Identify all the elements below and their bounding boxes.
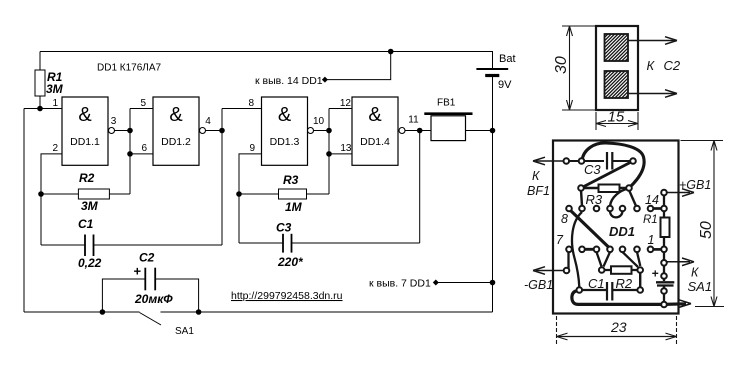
svg-text:7: 7 <box>556 233 564 247</box>
svg-text:&: & <box>78 104 92 126</box>
svg-text:3M: 3M <box>81 199 99 213</box>
wire FB1 right to battery rail <box>466 130 493 132</box>
dimension 23 <box>557 316 677 344</box>
svg-text:&: & <box>169 104 183 126</box>
svg-text:DD1: DD1 <box>609 224 635 239</box>
wire R1 top stub <box>39 52 41 71</box>
wire pin 5 line <box>130 108 153 110</box>
capacitor C2 pcb <box>656 263 674 305</box>
trace R1 bottom <box>663 237 665 263</box>
svg-text:К: К <box>532 169 540 183</box>
svg-text:R1: R1 <box>643 214 658 226</box>
arrow lead bottom <box>628 90 677 98</box>
capacitor C3 <box>283 234 292 253</box>
wire vertical DD1.4 output to C3 <box>419 131 421 244</box>
board outline <box>553 141 679 314</box>
svg-text:R3: R3 <box>283 173 299 187</box>
wire DD1.4 output lead to FB1 <box>405 130 431 132</box>
trace big loop <box>582 143 644 188</box>
op gate DD1.3 <box>262 97 314 165</box>
trace pin7 down <box>567 249 569 270</box>
switch SA1 lever <box>140 313 162 326</box>
arrow +GB1 <box>667 189 694 197</box>
capacitor C2 <box>145 268 155 291</box>
trace R3 right down <box>629 190 636 206</box>
trace GB1 minus lead <box>533 267 566 275</box>
svg-text:FB1: FB1 <box>437 98 456 109</box>
wire C2 branch right <box>155 279 198 312</box>
capacitor C1 <box>85 235 94 257</box>
svg-text:R3: R3 <box>586 192 603 207</box>
svg-text:DD1.3: DD1.3 <box>270 136 300 148</box>
node FB1 rail <box>490 128 496 134</box>
sounder FB1 <box>424 98 472 141</box>
svg-text:220*: 220* <box>277 255 304 269</box>
resistor R1 pcb <box>661 218 670 238</box>
node R1 pin1 <box>37 106 43 112</box>
svg-text:11: 11 <box>408 115 419 126</box>
pads IC bottom row <box>566 247 653 253</box>
op gate DD1.4 <box>352 97 405 165</box>
svg-text:0,22: 0,22 <box>78 256 102 270</box>
svg-text:1: 1 <box>648 233 655 247</box>
wire DD1.1 output lead <box>115 130 131 132</box>
resistor R1 <box>35 70 64 96</box>
svg-text:6: 6 <box>141 143 147 154</box>
hatched pad bottom <box>605 71 629 98</box>
svg-text:13: 13 <box>340 143 352 154</box>
trace V to R2 left <box>597 252 611 267</box>
svg-text:-GВ1: -GВ1 <box>524 278 553 292</box>
svg-text:Bat: Bat <box>499 53 516 65</box>
trace arc pad to R3 <box>610 189 628 207</box>
svg-text:9V: 9V <box>498 79 512 91</box>
node out4 <box>417 128 423 134</box>
wire R3 left lead <box>239 193 279 195</box>
svg-text:R2: R2 <box>616 276 633 291</box>
svg-text:1: 1 <box>52 98 58 109</box>
svg-text:C3: C3 <box>276 221 292 235</box>
node pin6 tap <box>127 151 133 157</box>
node out1 <box>127 128 133 134</box>
svg-text:DD1.2: DD1.2 <box>161 136 191 148</box>
svg-text:к выв. 14 DD1: к выв. 14 DD1 <box>255 75 323 87</box>
svg-text:R2: R2 <box>79 171 95 185</box>
node out2 <box>219 128 225 134</box>
wire R3 right lead <box>307 193 330 195</box>
wire pin 9 line and vertical to C3 <box>239 154 262 243</box>
svg-text:C3: C3 <box>584 162 601 177</box>
svg-text:+: + <box>652 267 659 281</box>
trace BF1 lead <box>533 157 566 165</box>
wire pin 1 line <box>24 108 62 110</box>
trace diagonal pin8 <box>569 209 610 249</box>
wire DD1.2 output lead <box>206 130 223 132</box>
wire C1 right run <box>94 244 223 246</box>
trace R3 left down <box>581 190 582 206</box>
node к выв. 14 DD1 <box>255 75 328 87</box>
svg-text:ВF1: ВF1 <box>527 184 550 198</box>
trace left arc to C1 <box>572 212 582 287</box>
svg-text:к выв. 7 DD1: к выв. 7 DD1 <box>369 278 431 290</box>
wire battery negative vertical rail <box>492 77 494 312</box>
wire C2 branch left <box>102 279 145 312</box>
svg-text:3M: 3M <box>46 82 64 96</box>
svg-text:+: + <box>134 264 142 279</box>
node pin7 rail <box>490 280 496 286</box>
svg-text:3: 3 <box>111 116 117 127</box>
node C2 right <box>196 309 202 315</box>
pads other <box>564 158 667 307</box>
op gate DD1.1 <box>62 97 115 165</box>
trace pin1 to R1 column <box>651 248 665 251</box>
wire vertical node DD1.1 output <box>129 109 131 195</box>
dimension 15 <box>596 112 638 130</box>
wire pin 12 line <box>329 108 352 110</box>
trace V to R2 right <box>623 252 641 267</box>
svg-text:8: 8 <box>248 98 254 109</box>
trace bar pads <box>582 248 597 251</box>
wire left vertical rail <box>23 109 25 313</box>
arrow rail exit <box>679 300 691 308</box>
svg-text:C2: C2 <box>139 251 155 265</box>
resistor R3 <box>279 173 307 214</box>
housing outline <box>596 26 638 110</box>
node R2 left <box>38 191 44 197</box>
svg-text:9: 9 <box>249 143 255 154</box>
wire top supply rail <box>40 52 493 69</box>
trace C3 to pad <box>612 160 633 162</box>
svg-text:+GВ1: +GВ1 <box>679 178 711 192</box>
wire bottom rail right of SA1 <box>161 311 493 313</box>
wire C1 left run <box>41 244 85 246</box>
svg-text:15: 15 <box>608 109 625 126</box>
svg-text:SA1: SA1 <box>175 326 194 337</box>
svg-text:2: 2 <box>52 143 58 154</box>
svg-text:DD1.4: DD1.4 <box>360 136 390 148</box>
svg-text:50: 50 <box>698 221 715 239</box>
node к выв. 7 DD1 <box>369 278 439 290</box>
wire R2 right lead <box>109 193 130 195</box>
arrow К SA1 <box>667 258 694 266</box>
wire R2 left lead <box>41 193 78 195</box>
wire C3 left run <box>239 242 283 244</box>
hatched pad top <box>605 34 629 61</box>
svg-text:1M: 1M <box>285 200 303 214</box>
svg-text:20мкФ: 20мкФ <box>134 292 173 306</box>
trace pads to C3 <box>569 160 604 162</box>
node rail to pin14 <box>388 49 394 55</box>
svg-text:C1: C1 <box>588 276 605 291</box>
trace bottom ground rail <box>572 290 686 304</box>
svg-text:SA1: SA1 <box>688 279 713 294</box>
svg-text:4: 4 <box>205 116 211 127</box>
trace pin14 run <box>651 207 665 210</box>
trace C1 right lead <box>612 289 640 291</box>
wire to pin 7 of DD1 <box>436 282 493 284</box>
dimension 30 <box>562 26 600 110</box>
wire vertical node DD1.3 output <box>328 109 330 195</box>
resistor R3 pcb <box>581 185 629 193</box>
battery Bat 9V <box>476 53 515 91</box>
trace C1 left lead <box>579 289 607 291</box>
node R3 left <box>236 191 242 197</box>
wire R1 bottom stub <box>39 96 41 109</box>
wire vertical node DD1.2 output to C1 <box>221 109 223 246</box>
wire bottom rail left of SA1 <box>24 311 140 313</box>
svg-text:30: 30 <box>553 56 570 74</box>
capacitor C3 pcb <box>607 152 612 170</box>
wire pin 6 line <box>130 153 153 155</box>
node C2 left <box>100 309 106 315</box>
svg-text:10: 10 <box>313 116 325 127</box>
node pin13 tap <box>326 151 332 157</box>
svg-text:C1: C1 <box>78 217 94 231</box>
dimension 50 <box>681 141 725 307</box>
svg-text:14: 14 <box>645 193 659 207</box>
trace R2 right to C1 <box>639 270 641 290</box>
wire pin 13 line <box>329 153 352 155</box>
wire to pin 14 of DD1 <box>325 52 391 80</box>
svg-text:23: 23 <box>610 319 627 335</box>
svg-text:&: & <box>368 104 382 126</box>
capacitor C1 pcb <box>607 282 612 301</box>
trace U under pads <box>610 211 623 217</box>
trace GB1 column upper <box>663 195 665 218</box>
svg-text:К: К <box>647 58 656 73</box>
pads IC top row <box>566 206 653 212</box>
svg-text:12: 12 <box>340 98 352 109</box>
resistor R2 <box>78 171 109 213</box>
svg-text:DD1.1: DD1.1 <box>70 136 100 148</box>
wire pin 8 line <box>222 108 262 110</box>
svg-text:http://299792458.3dn.ru: http://299792458.3dn.ru <box>231 290 343 302</box>
wire pin 2 line and vertical to C1 <box>41 154 62 245</box>
trace diagonal C3 to R3 <box>581 161 633 188</box>
wire C3 right run <box>292 242 420 244</box>
svg-text:5: 5 <box>140 98 146 109</box>
resistor R2 pcb <box>602 266 641 274</box>
arrow lead top <box>628 37 677 45</box>
svg-text:8: 8 <box>561 212 568 226</box>
op gate DD1.2 <box>153 97 206 165</box>
wire DD1.3 output lead <box>314 130 330 132</box>
node out3 <box>326 128 332 134</box>
svg-text:К: К <box>691 266 699 280</box>
svg-text:С2: С2 <box>664 58 681 73</box>
svg-text:&: & <box>278 104 292 126</box>
svg-text:DD1 К176ЛА7: DD1 К176ЛА7 <box>97 63 162 74</box>
